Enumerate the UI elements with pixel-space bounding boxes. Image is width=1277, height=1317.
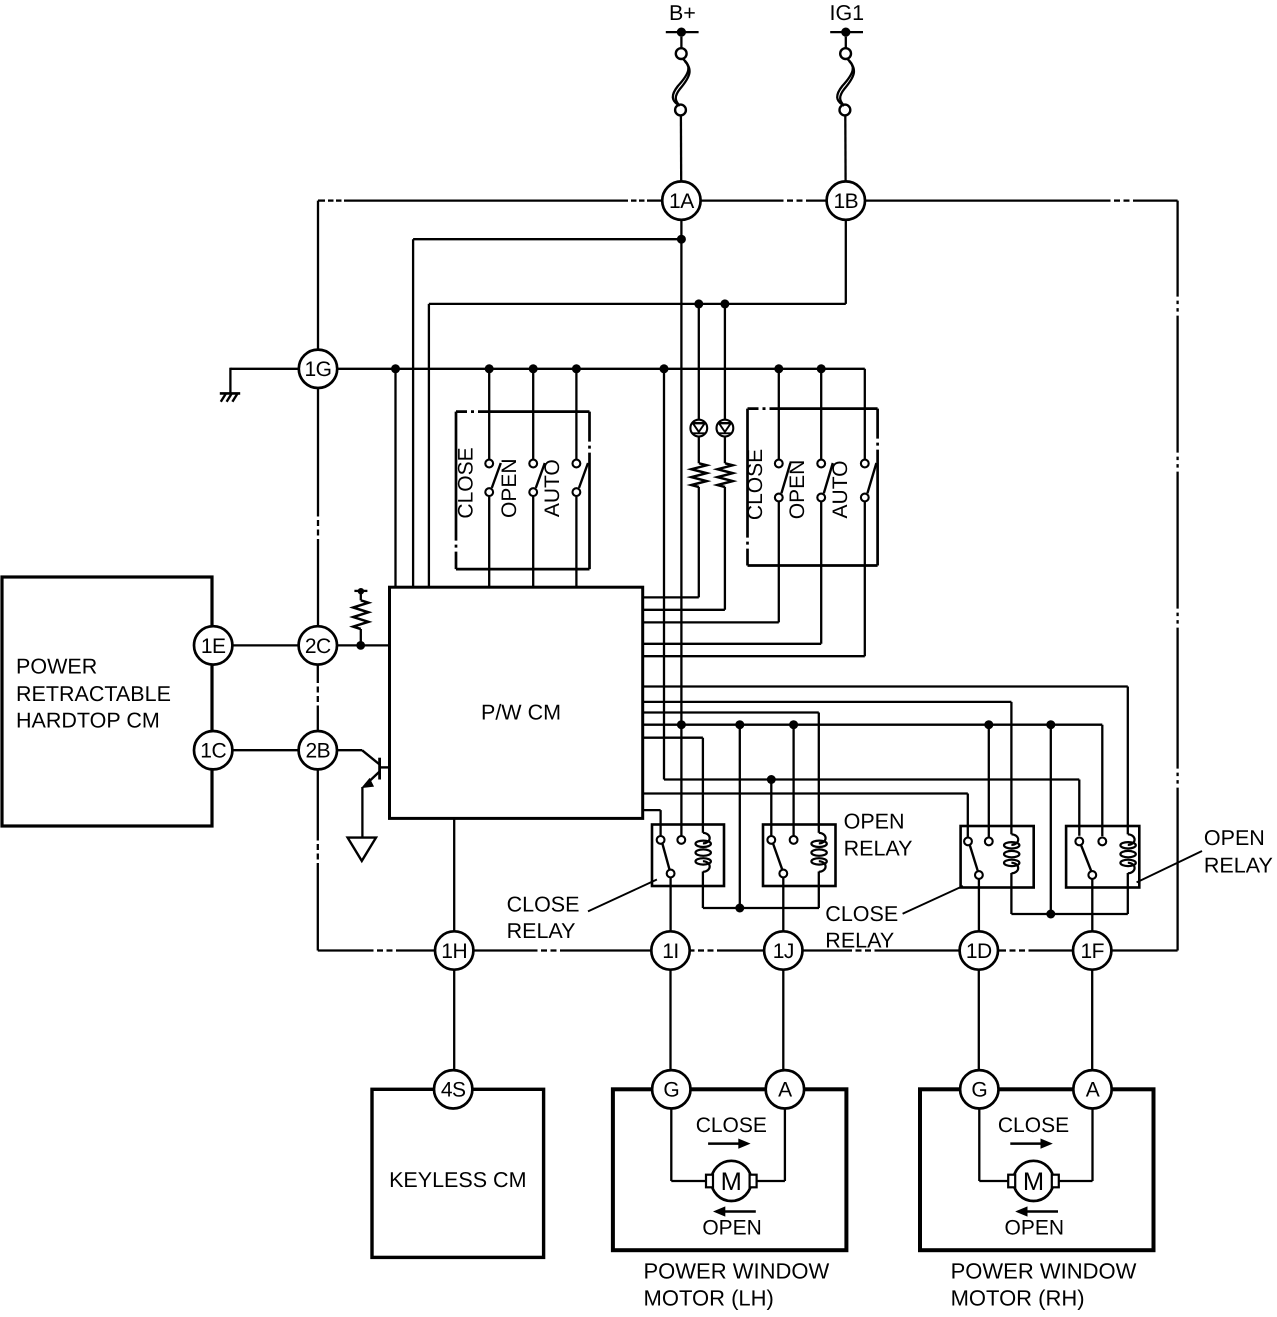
relay CLOSE RELAY (LH) middle contact: [677, 836, 685, 844]
resistor R2 (LED2 series): [718, 463, 733, 487]
wire from 1A tap line down to P/W CM (x=413): [412, 239, 414, 587]
wire 1E to 2C: [232, 644, 299, 646]
relay OPEN RELAY (LH) middle contact: [790, 836, 798, 844]
relay OPEN RELAY (RH) moving contact: [1088, 871, 1096, 879]
wire 1H to 4S: [453, 969, 455, 1070]
KEYLESS CM box: [372, 1089, 544, 1257]
svg-text:P/W CM: P/W CM: [481, 701, 561, 725]
leader line to relay4: [1137, 851, 1202, 882]
wire to relay4 left contact: [1078, 780, 1080, 836]
P/W CM pin feed to OPEN relay RH coil: [643, 685, 1128, 687]
connector 2B: [299, 731, 337, 769]
svg-text:1F: 1F: [1080, 940, 1104, 963]
transistor Q1: [337, 749, 363, 751]
wire coil RH-close bottom: [1010, 873, 1012, 914]
wire 2C to 2B (dash-dot): [317, 664, 319, 683]
svg-text:G: G: [663, 1079, 679, 1102]
svg-text:POWER WINDOW: POWER WINDOW: [951, 1259, 1137, 1284]
wire: ground line from 1G bus to relay contacts: [663, 369, 665, 780]
svg-text:M: M: [721, 1168, 742, 1196]
svg-text:AUTO: AUTO: [829, 461, 852, 519]
junction pull-up resistor: [356, 641, 365, 650]
wire 2B down to bottom line (dash-dot): [317, 769, 319, 841]
svg-text:OPEN: OPEN: [702, 1216, 762, 1239]
svg-text:CLOSE: CLOSE: [744, 449, 767, 520]
wire coil LH-open bottom: [818, 872, 820, 909]
svg-text:CLOSE: CLOSE: [454, 447, 477, 518]
wire to LED1: [698, 304, 700, 420]
wire corner down to 1G: [317, 201, 319, 351]
wire to relay3 middle contact: [988, 725, 990, 838]
wire: 1G bus to switch blocks: [337, 368, 865, 370]
wire fuse to connector: [844, 115, 847, 182]
wire 1D to motor RH G: [978, 969, 980, 1071]
wire A to motor (RH): [1091, 1108, 1093, 1181]
svg-text:KEYLESS CM: KEYLESS CM: [389, 1168, 526, 1192]
wire switch output to P/W CM: [532, 496, 534, 587]
P/W CM pin to CLOSE relay LH contact: [643, 809, 661, 811]
switch block: P/W main switch (LH): [456, 412, 590, 569]
relay OPEN RELAY (RH) blade: [1081, 846, 1091, 871]
wire RH AUTO switch to P/W CM pin: [864, 501, 866, 656]
svg-text:MOTOR (LH): MOTOR (LH): [644, 1286, 774, 1311]
wire relay2 out to 1J: [782, 878, 784, 932]
arrow CLOSE (right): [1010, 1142, 1041, 1145]
svg-text:RELAY: RELAY: [507, 919, 576, 943]
wire 1G to 2C (dash-dot): [317, 388, 319, 517]
wire 1B to right border: [865, 199, 1111, 201]
relay CLOSE RELAY (LH) moving contact: [667, 870, 675, 878]
motor M (RH): [1013, 1161, 1053, 1201]
svg-text:AUTO: AUTO: [541, 459, 564, 517]
motor M (LH): [711, 1161, 751, 1201]
wire coil-return bus LH: [703, 907, 819, 909]
svg-text:2C: 2C: [305, 635, 331, 658]
wire: right border 1B to 1F line: [1176, 201, 1178, 951]
junction coil-return LH: [735, 720, 744, 729]
ground (emitter): [348, 838, 376, 861]
fuse F1 (B+ feed): [673, 37, 690, 116]
svg-text:1C: 1C: [200, 740, 226, 763]
svg-text:OPEN: OPEN: [498, 458, 521, 518]
POWER WINDOW MOTOR (RH) box: [920, 1089, 1154, 1250]
connector 1G: [299, 350, 337, 388]
P/W CM pin to CLOSE relay RH contact: [643, 792, 968, 794]
connector 2C: [299, 626, 337, 664]
wire: bottom connector line: [318, 949, 374, 951]
svg-text:A: A: [1086, 1079, 1100, 1102]
relay CLOSE RELAY (RH) coil: [1004, 825, 1019, 874]
svg-text:A: A: [778, 1079, 792, 1102]
relay OPEN RELAY (RH) left contact: [1075, 838, 1083, 846]
relay OPEN RELAY (RH) middle contact: [1098, 838, 1106, 846]
wire G to motor (RH): [978, 1108, 980, 1181]
svg-text:POWER: POWER: [16, 655, 97, 679]
wire LED1 chain down to P/W CM pin: [698, 487, 700, 597]
P/W CM pin feed to CLOSE relay RH coil: [643, 701, 1012, 703]
wire coil-return bus RH: [1011, 913, 1127, 915]
svg-text:4S: 4S: [441, 1079, 466, 1102]
switch block: P/W switch (RH): [748, 409, 878, 566]
relay CLOSE RELAY (RH) moving contact: [975, 871, 983, 879]
relay CLOSE RELAY (RH) middle contact: [985, 838, 993, 846]
svg-text:G: G: [971, 1079, 987, 1102]
wire coil-return LH vertical: [739, 725, 741, 908]
LED indicator D2: [717, 420, 734, 437]
wire 1A to 1B: [700, 199, 783, 201]
svg-text:CLOSE: CLOSE: [507, 893, 580, 917]
svg-text:IG1: IG1: [829, 1, 864, 25]
junction relay3 middle: [984, 720, 993, 729]
wire 1F to motor RH A: [1091, 969, 1093, 1071]
switch CLOSE (RH): [778, 369, 780, 460]
connector 1C: [194, 731, 232, 769]
junction on 1G bus x=664: [660, 364, 669, 373]
connector A (RH): [1073, 1070, 1111, 1108]
wire: B+ relay feed line y=724.7: [643, 724, 1103, 726]
svg-text:1G: 1G: [304, 358, 331, 381]
P/W CM control module box: [390, 587, 643, 818]
connector 1I: [651, 931, 689, 969]
resistor R3 zigzag: [353, 600, 368, 629]
connector G (LH): [652, 1070, 690, 1108]
junction relay2 contact ground: [767, 775, 776, 784]
junction LED1 feed: [694, 299, 703, 308]
wire bus to P/W CM pin (x=395.5): [394, 369, 396, 587]
relay CLOSE RELAY (RH) box: [961, 826, 1034, 888]
connector 1B: [827, 181, 865, 219]
junction relay2 middle: [789, 720, 798, 729]
wire relay4 out to 1F: [1091, 879, 1093, 932]
relay OPEN RELAY (LH) blade: [773, 844, 782, 869]
wire 2C to P/W CM: [337, 644, 390, 646]
connector 1E: [194, 626, 232, 664]
svg-text:1J: 1J: [773, 940, 794, 963]
svg-text:1E: 1E: [201, 635, 226, 658]
connector 4S: [434, 1070, 472, 1108]
wire 1A down to relay1 middle contact (B+ rail): [680, 219, 682, 836]
wire 1C to 2B: [232, 749, 300, 751]
wire 1J to motor LH A: [782, 969, 784, 1071]
svg-text:1I: 1I: [662, 940, 679, 963]
ground: [230, 368, 299, 370]
leader line to relay1: [588, 880, 657, 912]
arrow OPEN (left): [1027, 1210, 1059, 1213]
P/W CM pin feed to OPEN relay LH coil: [643, 711, 819, 713]
svg-text:2B: 2B: [305, 740, 330, 763]
switch OPEN (RH): [820, 369, 822, 460]
relay CLOSE RELAY (LH) blade: [663, 844, 670, 869]
svg-text:POWER WINDOW: POWER WINDOW: [644, 1259, 830, 1284]
relay CLOSE RELAY (LH) box: [652, 825, 724, 887]
wire switch output to P/W CM: [488, 496, 490, 587]
wire tap from 1A vertical y=239: [413, 238, 681, 240]
wire to LED2: [724, 304, 726, 420]
relay OPEN RELAY (LH) moving contact: [779, 870, 787, 878]
switch OPEN (LH): [532, 369, 534, 460]
switch CLOSE (LH): [488, 369, 490, 460]
svg-text:HARDTOP CM: HARDTOP CM: [16, 709, 160, 733]
switch AUTO (RH): [864, 369, 866, 460]
svg-text:M: M: [1023, 1168, 1044, 1196]
svg-text:CLOSE: CLOSE: [825, 902, 898, 926]
resistor R1 (LED1 series): [691, 463, 706, 487]
wire coil-return RH vertical: [1050, 725, 1052, 914]
wire to relay2 left contact: [770, 780, 772, 836]
wire RH CLOSE switch to P/W CM pin: [778, 501, 780, 622]
wire to relay2 middle contact: [792, 725, 794, 836]
svg-text:RELAY: RELAY: [844, 837, 913, 861]
junction coil-return RH: [1046, 720, 1055, 729]
arrow OPEN (left): [724, 1210, 756, 1213]
svg-text:RETRACTABLE: RETRACTABLE: [16, 682, 171, 706]
svg-text:1D: 1D: [966, 940, 992, 963]
svg-text:OPEN: OPEN: [1204, 826, 1265, 850]
svg-text:B+: B+: [669, 1, 696, 25]
connector 1J: [764, 931, 802, 969]
wire 1B down to tap corner: [845, 219, 847, 304]
relay OPEN RELAY (LH) box: [763, 825, 836, 887]
POWER WINDOW MOTOR (LH) box: [613, 1089, 847, 1250]
fuse F2 (IG1 feed): [837, 37, 854, 116]
relay OPEN RELAY (RH) coil: [1120, 825, 1135, 874]
junction LED2 feed: [720, 299, 729, 308]
svg-text:CLOSE: CLOSE: [696, 1114, 767, 1137]
wire fuse to connector: [680, 115, 683, 182]
svg-text:CLOSE: CLOSE: [998, 1114, 1069, 1137]
wire 1I to motor LH G: [669, 969, 671, 1071]
switch AUTO (LH): [575, 369, 577, 460]
svg-text:OPEN: OPEN: [1005, 1216, 1065, 1239]
connector 1D: [960, 931, 998, 969]
wire from 1B tap line down to P/W CM (x=429): [428, 304, 430, 587]
svg-text:MOTOR (RH): MOTOR (RH): [951, 1286, 1085, 1311]
svg-text:OPEN: OPEN: [844, 809, 905, 833]
junction on 1G bus x=778.8: [774, 364, 783, 373]
junction on 1G bus x=489.2: [485, 364, 494, 373]
resistor R3 (pull-up at 2C): [354, 590, 367, 592]
relay CLOSE RELAY (RH) blade: [970, 846, 978, 871]
svg-text:1H: 1H: [441, 940, 467, 963]
wire RH OPEN switch to P/W CM pin: [820, 501, 822, 644]
relay CLOSE RELAY (RH) left contact: [964, 838, 972, 846]
wire tap from 1B vertical y=304: [429, 303, 846, 305]
junction on 1G bus x=821.2: [817, 364, 826, 373]
svg-text:OPEN: OPEN: [786, 460, 809, 520]
wire relay3 out to 1D: [978, 879, 980, 932]
junction on 1G bus x=395.5: [391, 364, 400, 373]
relay OPEN RELAY (LH) left contact: [767, 836, 775, 844]
relay OPEN RELAY (RH) box: [1066, 826, 1139, 888]
relay OPEN RELAY (LH) coil: [811, 823, 826, 872]
svg-text:RELAY: RELAY: [1204, 853, 1273, 877]
relay CLOSE RELAY (LH) left contact: [657, 836, 665, 844]
wire A to motor (LH): [784, 1108, 786, 1181]
svg-text:1A: 1A: [669, 190, 694, 213]
svg-text:1B: 1B: [833, 190, 858, 213]
wire coil RH-open bottom: [1127, 873, 1129, 914]
LED indicator D1: [690, 420, 707, 437]
connector G (RH): [960, 1070, 998, 1108]
connector A (LH): [766, 1070, 804, 1108]
arrow CLOSE (right): [708, 1142, 739, 1145]
wire relay1 out to 1I: [669, 878, 671, 932]
connector 1A: [662, 181, 700, 219]
leader line to relay3: [903, 886, 963, 914]
svg-text:RELAY: RELAY: [825, 928, 894, 952]
wire P/W CM to 1H: [453, 818, 455, 931]
connector 1H: [435, 931, 473, 969]
wire LED2 chain down to P/W CM pin: [724, 487, 726, 610]
junction on 1G bus x=533.2: [529, 364, 538, 373]
relay CLOSE RELAY (LH) coil: [696, 823, 711, 872]
connector 1F: [1073, 931, 1111, 969]
wire coil LH-close bottom: [702, 872, 704, 909]
wire switch output to P/W CM: [575, 496, 577, 587]
P/W CM pin feed to CLOSE relay LH coil: [643, 737, 703, 739]
wire: top feed line from corner x=318 through 1A and 1B to right border: [318, 199, 325, 201]
junction on 1G bus x=576.4: [572, 364, 581, 373]
wire G to motor (LH): [670, 1108, 672, 1181]
junction 1A vertical / tap: [677, 235, 686, 244]
junction B+ rail / relay feed line: [677, 720, 686, 729]
POWER RETRACTABLE HARDTOP CM box: [2, 577, 212, 826]
